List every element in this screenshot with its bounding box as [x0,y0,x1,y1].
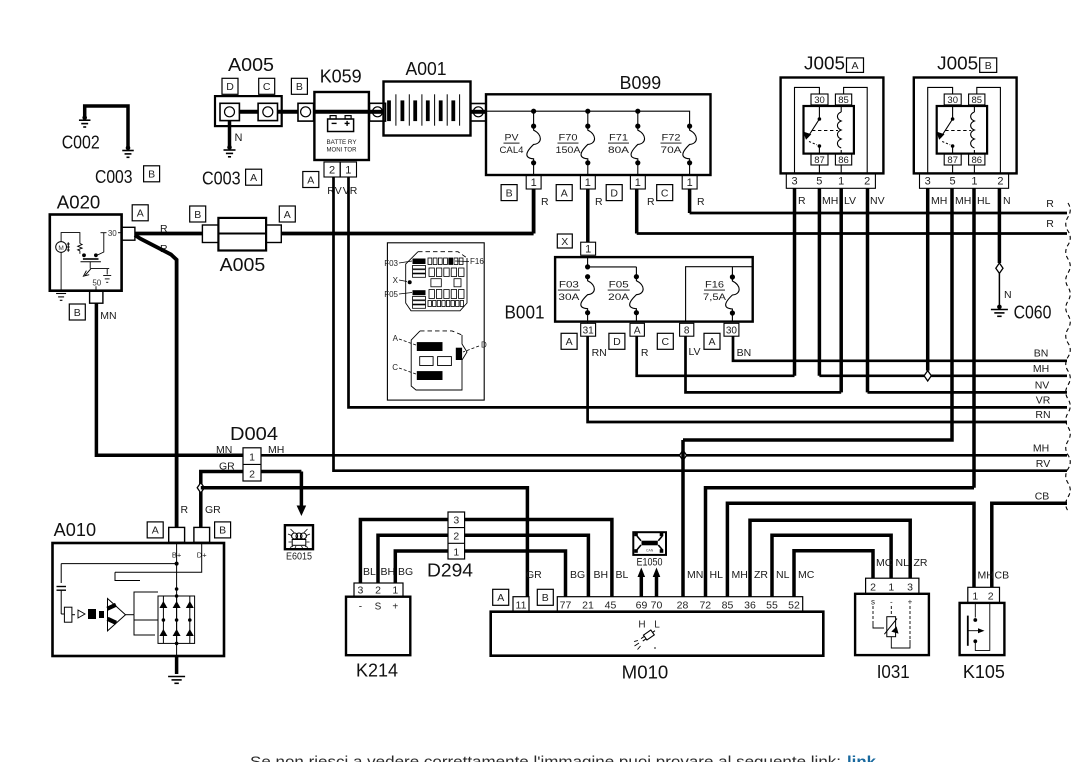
component K214 box [346,597,410,656]
svg-text:77: 77 [560,599,572,611]
connector tag A of C003 [246,169,262,185]
svg-text:A001: A001 [406,59,447,79]
svg-text:85: 85 [722,599,734,611]
wire J005B-5 MH [683,188,952,440]
svg-text:31: 31 [583,325,595,336]
svg-text:R: R [595,196,603,208]
wire BL D294-3 to M010-45 [465,520,612,597]
wire K059 to A001 [369,110,384,114]
svg-text:52: 52 [788,599,800,611]
svg-text:CAL4: CAL4 [500,145,524,156]
fuse F72 [687,124,692,129]
svg-text:B: B [219,525,226,537]
svg-text:BG: BG [570,569,585,581]
wire A020 to A005 inline [135,232,203,236]
A001 battery cells [387,100,391,121]
connector tag C of B099 [657,185,673,201]
svg-text:2: 2 [997,176,1003,188]
svg-text:LV: LV [844,195,856,207]
B099 pin 1 (A) [580,175,595,189]
svg-text:F71: F71 [609,133,628,144]
junction diamond C060 [996,263,1003,273]
svg-text:F05: F05 [384,290,398,299]
wire R bus from A005 inline to B099 B [281,232,533,236]
wire R row upper to right edge [690,212,1067,215]
svg-text:150A: 150A [556,145,582,156]
svg-text:80A: 80A [608,145,630,156]
svg-text:R: R [647,196,655,208]
svg-text:F70: F70 [559,133,578,144]
wire J005A-2 NV [866,188,870,392]
svg-text:F03: F03 [384,259,398,268]
svg-text:A: A [497,592,504,604]
component A005 body [215,96,282,126]
ground C003 A [227,145,232,150]
svg-text:R: R [697,196,705,208]
svg-text:A: A [307,174,314,186]
svg-text:M: M [58,245,63,252]
wire J005A-3 R [793,188,797,375]
component K105 box [960,603,1005,655]
B099 pin 1 (C) [682,175,697,189]
svg-text:F05: F05 [609,280,629,291]
svg-text:BH: BH [381,566,396,578]
svg-text:2: 2 [249,469,255,481]
svg-text:8: 8 [684,325,690,336]
svg-text:2: 2 [453,531,459,543]
svg-text:ZR: ZR [914,557,928,569]
svg-text:85: 85 [971,95,982,106]
B099 internal bus [486,111,690,126]
wire J005A-1 LV [839,188,843,392]
svg-text:BL: BL [363,566,376,578]
junction diamond GR [197,483,204,493]
wire GR branch to M010-11 [201,488,528,597]
svg-text:VR: VR [1036,395,1051,407]
svg-text:+: + [392,602,398,613]
svg-text:1: 1 [345,164,351,176]
inline connector A005 right stub [266,225,281,243]
ground C060 [997,305,1002,310]
B001 pin A [630,323,644,336]
svg-text:K105: K105 [963,662,1005,682]
wire VR from K059 [349,177,1068,407]
svg-text:BH: BH [594,569,609,581]
connector tag D of B099 [606,185,622,201]
svg-text:2: 2 [375,585,381,597]
connector tag A of B099 [556,185,572,201]
B001 pin 1 top [581,242,596,255]
connector D004 [243,448,261,481]
ground A010 [168,676,185,678]
component M010 box [491,612,824,656]
wire BL K214-3 to D294 [360,520,448,584]
svg-text:A: A [708,336,715,348]
svg-text:5: 5 [816,176,822,188]
svg-text:CB: CB [995,570,1010,582]
wire to C060 ground [998,273,1000,305]
B001 internal wires [587,257,589,267]
svg-text:A: A [137,208,144,220]
svg-text:MH: MH [955,195,971,207]
wire BH D294-2 to M010-21 [465,535,589,596]
svg-text:MC: MC [876,557,893,569]
wire MN from A020 to D004 [96,303,243,455]
svg-text:C060: C060 [1014,303,1052,323]
connector tag B of A020 [69,304,85,320]
svg-text:21: 21 [582,599,594,611]
harness continuation squiggle [1066,203,1071,511]
B001 pin 30 [724,323,739,336]
A020 terminal 50 stub [90,291,103,304]
connector tag A of B001 31 [561,333,577,349]
svg-text:NL: NL [896,557,910,569]
svg-text:30: 30 [108,229,117,238]
svg-text:F72: F72 [662,133,681,144]
svg-text:BN: BN [737,347,752,359]
svg-text:D: D [481,341,487,350]
svg-text:RN: RN [1035,409,1050,421]
svg-text:11: 11 [516,599,527,611]
wire J005B-3 MH [926,188,930,370]
wire B099-A down to B001 X [586,189,590,242]
wire A005 to K059 [278,110,299,114]
svg-text:BG: BG [398,566,413,578]
connector tag D of A005 [222,78,238,94]
svg-text:C002: C002 [62,132,100,152]
svg-text:-: - [359,602,362,613]
component A001 box [384,82,471,136]
label A at A005 inline right [279,206,295,222]
svg-text:LV: LV [689,346,701,358]
svg-text:A005: A005 [228,55,274,75]
ground C003 B [126,146,131,151]
svg-text:ZR: ZR [754,569,768,581]
svg-text:1: 1 [392,585,398,597]
svg-text:A: A [566,336,573,348]
K059 pin 2 [324,162,340,177]
M010 pin strip [557,597,802,612]
K059 battery icon [328,119,354,132]
wire CB right edge to K105-2 [992,503,1067,587]
ground at A020 motor [56,293,66,295]
svg-text:1: 1 [585,177,591,189]
svg-text:+: + [908,598,913,607]
svg-text:B001: B001 [505,303,545,323]
wire RV from K059 [334,177,1068,471]
fuse F05 [634,274,639,279]
svg-text:30: 30 [726,325,738,336]
svg-text:HL: HL [710,569,724,581]
M010 pin 11 cell [513,597,529,612]
inline connector A005 left stub [202,225,218,243]
svg-text:CB: CB [1035,491,1050,503]
svg-text:2: 2 [988,590,994,602]
svg-text:MH: MH [931,195,947,207]
wire B099-C down [688,189,692,213]
svg-text:I031: I031 [877,662,910,682]
wire NL M010-55 to I031-1 [772,535,891,596]
junction diamond MH/J005B-3 [924,371,931,381]
wire J005B-2 N [998,188,1002,263]
wire MN/M010-28 vertical [681,440,685,597]
connector tag B of M010 [537,589,553,605]
connector tag C of B001 [657,333,673,349]
svg-text:C003: C003 [202,168,241,188]
K214 pin strip [354,583,403,597]
svg-text:MN: MN [100,310,116,322]
wire R diagonal to A010 [135,235,177,527]
connector tag A of J005 A [847,58,864,73]
svg-text:-: - [890,598,893,607]
connector tag A of A020 [132,205,148,221]
svg-text:A005: A005 [220,255,266,275]
svg-text:A: A [284,209,291,221]
svg-text:A: A [152,525,159,537]
svg-text:MH: MH [978,570,994,582]
fuse F03 [585,274,590,279]
A020 terminal A stub [122,227,135,240]
svg-text:1: 1 [687,177,693,189]
svg-text:R: R [1046,218,1054,230]
svg-text:A: A [250,172,257,184]
svg-text:87: 87 [814,155,825,166]
B099 pin 1 (B) [526,175,541,189]
svg-text:3: 3 [453,515,459,527]
svg-text:N: N [235,132,243,144]
label B at A005 inline [190,206,206,222]
B099 input terminal [471,104,487,122]
svg-text:1: 1 [888,582,894,594]
svg-text:BATTE RY: BATTE RY [327,139,357,146]
wire LV from B001-8 to J005A-1 [686,336,842,392]
svg-text:A: A [561,187,568,199]
B001 wire F16 to pin [731,313,733,322]
svg-text:1: 1 [971,176,977,188]
wire J005A-5 MH [818,188,822,375]
svg-text:3: 3 [907,582,913,594]
svg-text:PV: PV [505,133,520,144]
connector tag A of M010 [493,589,509,605]
wire BG K214-1 to D294 [395,551,448,583]
svg-text:3: 3 [925,176,931,188]
svg-text:K214: K214 [356,661,398,681]
svg-text:1: 1 [531,177,537,189]
svg-text:N: N [1003,195,1011,207]
ground C002 [82,115,87,120]
A010 terminal A stub [169,527,185,542]
A001 input terminal [370,103,386,121]
B001 wire F03 to pin [587,313,589,324]
svg-text:L: L [654,620,660,631]
svg-text:MH: MH [1033,363,1049,375]
svg-text:R: R [798,195,806,207]
wire NV row right [868,391,1068,394]
svg-text:J005: J005 [937,53,978,73]
connector tag C of A005 [259,78,275,94]
wire A010 to ground [175,656,179,674]
wire HL from J005B-1 to M010-72 [706,488,975,597]
svg-text:MH: MH [1033,443,1049,455]
svg-text:RV: RV [1036,458,1050,470]
svg-text:D: D [610,187,618,199]
wire J005B-1 HL upper [972,188,976,488]
wire E6015 feed [261,470,301,474]
svg-text:X: X [561,236,568,248]
svg-text:E1050: E1050 [637,557,663,569]
svg-text:N: N [1004,289,1012,301]
svg-text:30: 30 [947,95,958,106]
wire R row to right edge [637,232,1067,235]
B099 pin 1 (D) [630,175,645,189]
svg-text:B: B [506,187,513,199]
relay J005 B [914,78,1017,189]
svg-text:C: C [392,363,398,372]
svg-text:s: s [871,598,875,607]
wire BH K214-2 to D294 [378,535,448,583]
A010 internals (regulator, rotor, rectifier bridge) [176,543,178,656]
svg-text:NV: NV [870,195,885,207]
svg-text:1: 1 [585,244,591,256]
svg-text:36: 36 [744,599,756,611]
svg-text:BN: BN [1034,348,1049,360]
wire MC M010-52 to I031-2 [794,551,873,597]
K059 input terminal [298,103,314,121]
svg-text:3: 3 [357,585,363,597]
svg-text:BL: BL [616,569,629,581]
svg-text:2: 2 [864,176,870,188]
wire C002 to C003 B [85,106,128,148]
svg-text:72: 72 [699,599,711,611]
svg-text:1: 1 [249,452,255,464]
svg-text:A: A [393,334,399,343]
svg-text:45: 45 [605,599,617,611]
svg-text:70A: 70A [661,145,683,156]
connector tag B of A010 [215,522,231,538]
wire B099-D down [635,189,639,234]
svg-text:MN: MN [687,569,703,581]
component A010 box [53,543,225,656]
svg-text:VR: VR [343,185,358,197]
wire N from A005 D [228,121,232,148]
svg-text:HL: HL [977,195,991,207]
svg-text:50: 50 [92,278,101,287]
svg-text:Se non riesci a vedere corrett: Se non riesci a vedere correttamente l'i… [250,755,841,762]
A020 internals (starter motor M, relay contact, 30/50) [56,242,67,253]
wire BG D294-1 to M010-77 [465,551,566,597]
svg-text:J005: J005 [804,53,845,73]
inset fuse-box location drawing [387,243,484,400]
svg-text:GR: GR [205,504,221,516]
wire B099-B down [532,189,536,234]
svg-text:B099: B099 [620,73,662,93]
svg-text:D004: D004 [230,424,278,444]
connector tag B of B099 [501,185,517,201]
svg-text:M010: M010 [622,662,669,682]
fuse F70 [585,124,590,129]
component B099 box [486,94,711,175]
A005 terminal D [220,103,239,120]
wire RN from B001-31 [588,336,1067,422]
connector tag B of K059 [291,78,307,94]
svg-text:X: X [393,276,399,285]
svg-text:2: 2 [329,164,335,176]
component E6015 (glow plug icon) [285,525,313,549]
arrow M010-70 to E1050 [655,575,659,597]
component B001 box [555,257,753,322]
svg-text:B: B [985,60,992,72]
fuse PV/CAL4 [531,124,536,129]
svg-text:MC: MC [798,569,815,581]
svg-text:NV: NV [1035,380,1050,392]
svg-text:S: S [375,602,382,613]
wire A005 internal link [239,110,258,114]
svg-text:B: B [296,81,303,93]
component A005 inline body [218,218,266,251]
svg-text:28: 28 [677,599,689,611]
junction diamond MH/M010-28 [679,450,686,460]
connector tag D of B001 [609,333,625,349]
svg-text:E6015: E6015 [286,552,312,563]
svg-text:MONI TOR: MONI TOR [327,147,357,154]
svg-text:A010: A010 [54,520,96,540]
wire R from B001-A to J005A-3 [637,336,795,376]
connector D294 [448,512,465,559]
wire battery cable through K059 [313,110,370,114]
connector tag A of A010 [147,522,163,538]
A010 terminal B stub [194,527,210,542]
wire A001 to B099 [471,110,487,114]
component A020 box [50,215,122,291]
svg-text:30A: 30A [558,292,580,303]
component I031 box [855,594,929,655]
wire MH from M010-85 to K105-1 [727,503,974,596]
K105 internals (switch) [974,603,976,618]
svg-text:86: 86 [971,155,982,166]
wire GR from D004-2 left [201,472,243,528]
svg-text:K059: K059 [320,67,362,87]
M010 diagnostic plug icon [640,628,657,642]
wire ZR M010-36 to I031-3 [750,520,910,596]
connector tag A of B001 30 [704,333,720,349]
svg-text:F03: F03 [559,280,579,291]
svg-text:70: 70 [651,599,663,611]
svg-text:1: 1 [838,176,844,188]
svg-text:MN: MN [216,444,232,456]
svg-text:D: D [226,81,234,93]
svg-text:R: R [541,196,549,208]
svg-text:1: 1 [453,546,459,558]
svg-text:1: 1 [635,177,641,189]
svg-text:B: B [194,209,201,221]
I031 pin strip [866,578,919,594]
wire BN from B001-30 [733,336,1067,361]
arrow M010-69 to E1050 [640,575,644,597]
svg-text:5: 5 [949,176,955,188]
svg-text:20A: 20A [608,292,630,303]
K059 pin 1 [340,162,356,177]
svg-text:GR: GR [526,569,542,581]
svg-text:link: link [847,755,877,762]
fuse F16 [730,274,735,279]
svg-text:R: R [1046,198,1054,210]
svg-text:7,5A: 7,5A [703,292,727,303]
svg-text:CAN: CAN [646,548,654,552]
svg-text:R: R [181,504,189,516]
svg-text:1: 1 [972,590,978,602]
svg-text:MH: MH [822,195,838,207]
svg-text:69: 69 [636,599,648,611]
